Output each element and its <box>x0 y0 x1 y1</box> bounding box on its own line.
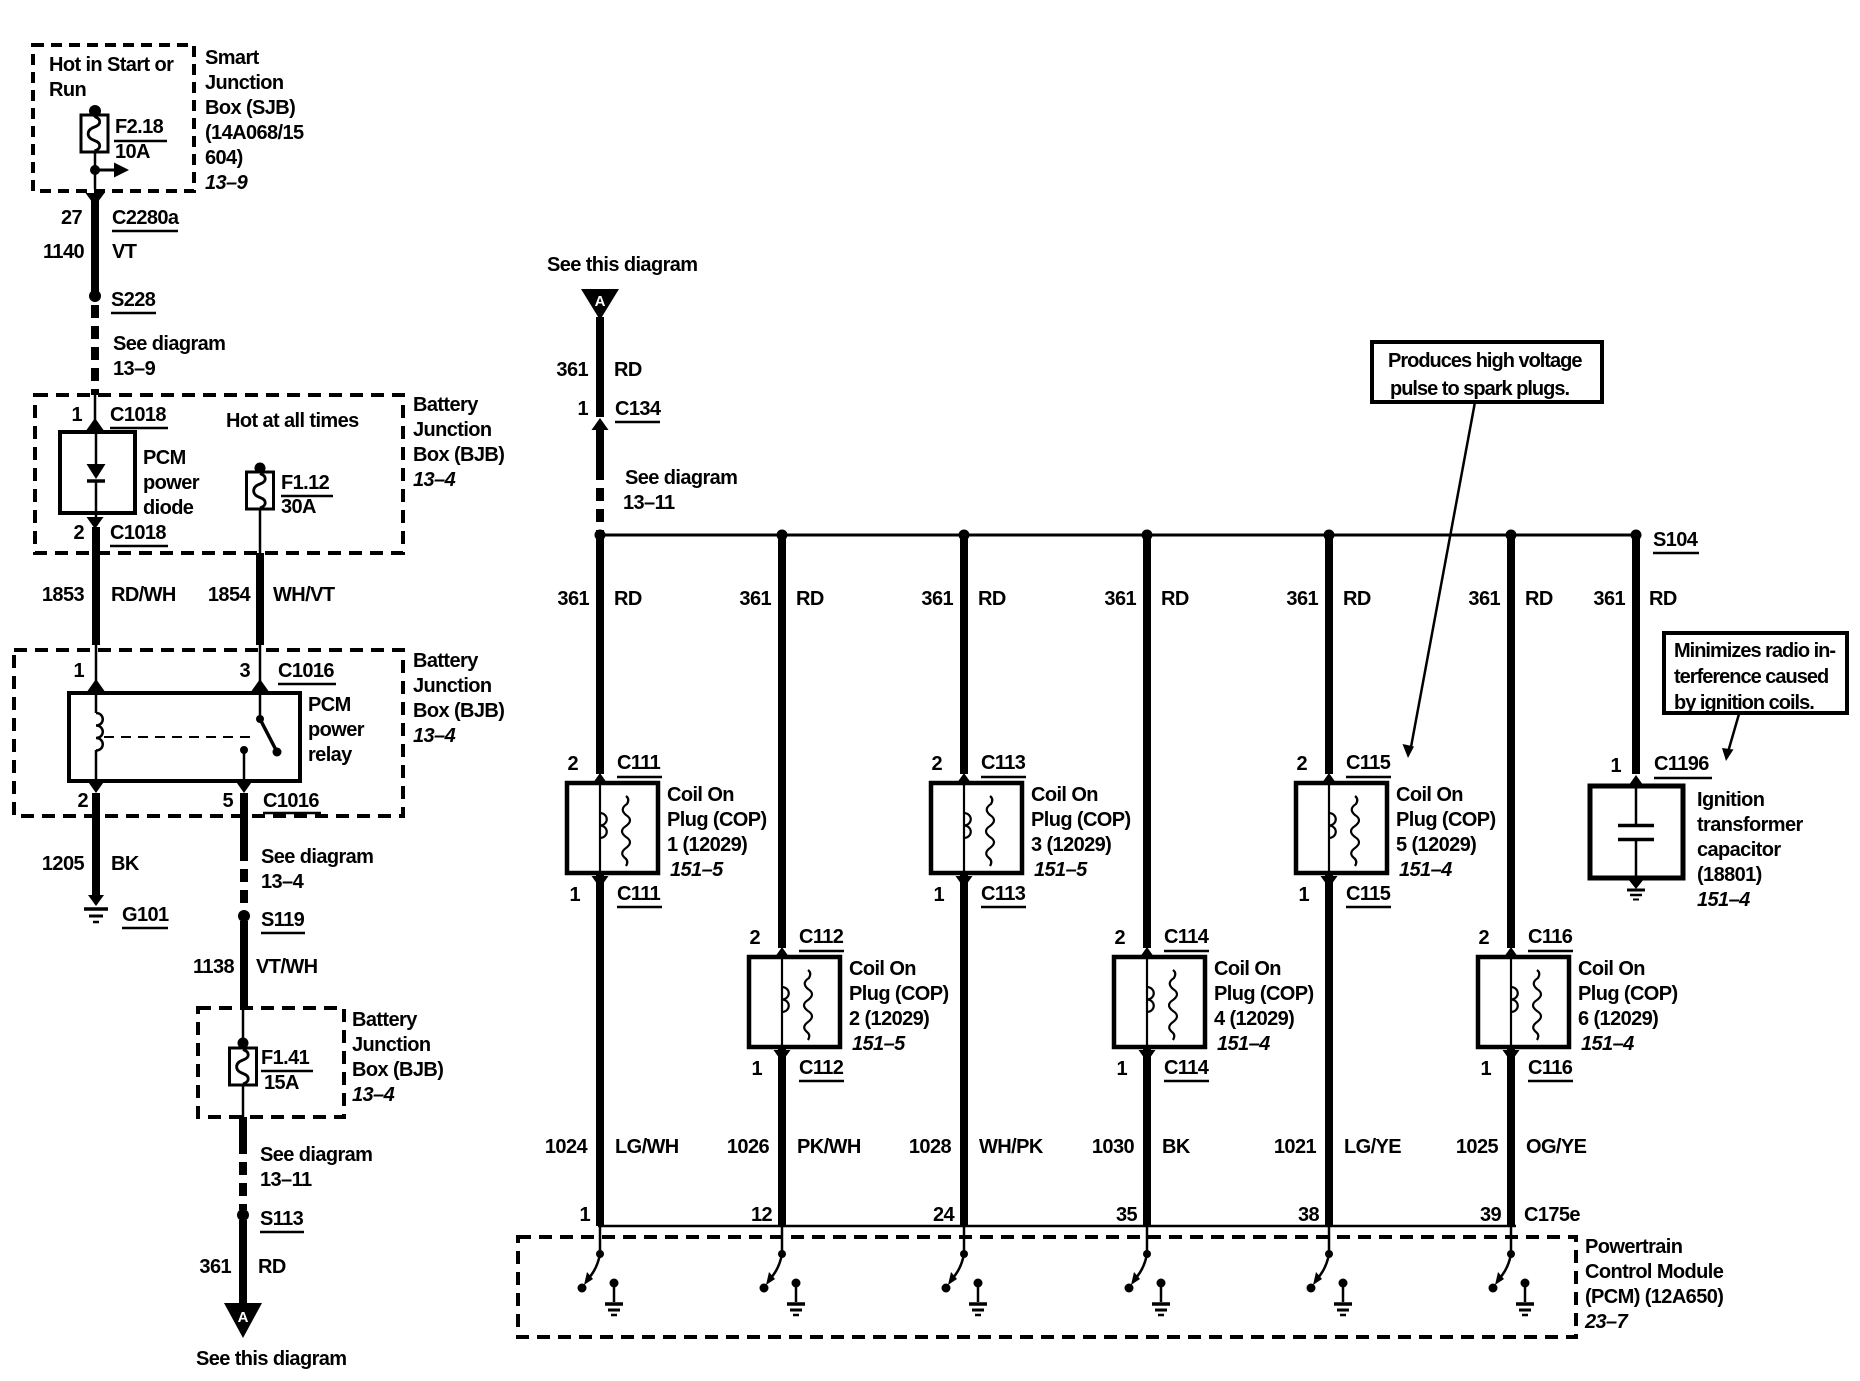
wire 1205 BK <box>92 793 100 898</box>
svg-text:C1016: C1016 <box>263 790 319 812</box>
svg-text:2 (12029): 2 (12029) <box>849 1008 929 1030</box>
svg-text:361: 361 <box>1593 588 1625 610</box>
svg-text:Box (BJB): Box (BJB) <box>413 700 504 722</box>
svg-text:Junction: Junction <box>205 72 284 94</box>
svg-text:C114: C114 <box>1164 926 1210 948</box>
Battery Junction Box (BJB) lower dashed enclosure <box>198 1008 344 1117</box>
svg-text:1026: 1026 <box>727 1136 770 1158</box>
svg-text:Coil On: Coil On <box>849 958 916 980</box>
Coil On Plug (COP) 5 (C115) <box>1296 783 1387 873</box>
splice S119 <box>238 910 250 922</box>
svg-text:Coil On: Coil On <box>1396 784 1463 806</box>
svg-text:C134: C134 <box>615 398 662 420</box>
wire 1853 RD/WH <box>92 527 100 645</box>
wire 1138 VT/WH <box>240 921 248 1008</box>
Powertrain Control Module dashed enclosure <box>518 1237 1576 1337</box>
svg-text:WH/PK: WH/PK <box>979 1136 1044 1158</box>
PCM power diode box <box>60 432 135 513</box>
svg-text:C111: C111 <box>617 883 661 905</box>
bus junction dot 5 <box>1324 530 1335 541</box>
svg-text:6 (12029): 6 (12029) <box>1578 1008 1658 1030</box>
bus junction dot 2 <box>777 530 788 541</box>
PCM driver switch and ground for pin 38 <box>1307 1226 1353 1315</box>
svg-text:3: 3 <box>239 660 250 682</box>
svg-text:LG/WH: LG/WH <box>615 1136 679 1158</box>
svg-text:C1018: C1018 <box>110 404 166 426</box>
Coil On Plug (COP) 6 (C116) <box>1478 957 1569 1047</box>
svg-text:2: 2 <box>1296 753 1307 775</box>
svg-text:151–4: 151–4 <box>1697 889 1750 911</box>
svg-text:27: 27 <box>61 207 83 229</box>
svg-text:(PCM) (12A650): (PCM) (12A650) <box>1585 1286 1723 1308</box>
relay coil <box>95 693 98 713</box>
svg-text:C116: C116 <box>1528 1057 1573 1079</box>
svg-text:361: 361 <box>1104 588 1136 610</box>
wire 1854 WH/VT <box>256 553 264 645</box>
svg-text:PK/WH: PK/WH <box>797 1136 861 1158</box>
pin 1 connector C112 <box>774 1050 791 1062</box>
svg-text:13–4: 13–4 <box>352 1084 395 1106</box>
wire 361 RD from arrow A <box>596 317 604 417</box>
svg-text:38: 38 <box>1298 1204 1320 1226</box>
svg-text:C115: C115 <box>1346 883 1391 905</box>
svg-text:361: 361 <box>1468 588 1500 610</box>
svg-text:Junction: Junction <box>352 1034 431 1056</box>
svg-text:Produces high voltage: Produces high voltage <box>1388 350 1582 372</box>
relay switch <box>259 693 262 716</box>
svg-text:pulse to spark plugs.: pulse to spark plugs. <box>1390 378 1569 400</box>
Battery Junction Box (BJB) relay dashed enclosure <box>14 650 403 816</box>
svg-text:power: power <box>308 719 365 741</box>
wire below fuse F1.41 <box>242 1085 245 1117</box>
wire 361 RD feed to coil 5 <box>1325 535 1333 774</box>
capacitor symbol <box>1635 786 1638 824</box>
svg-text:1: 1 <box>1116 1058 1127 1080</box>
wire 361 RD to off-page arrow <box>239 1220 247 1305</box>
svg-text:See this diagram: See this diagram <box>196 1348 346 1370</box>
svg-text:1853: 1853 <box>42 584 85 606</box>
svg-text:2: 2 <box>931 753 942 775</box>
splice S113 <box>237 1209 249 1221</box>
svg-text:Plug (COP): Plug (COP) <box>1396 809 1496 831</box>
Smart Junction Box (SJB) dashed enclosure <box>33 45 194 191</box>
svg-text:Smart: Smart <box>205 47 260 69</box>
svg-text:361: 361 <box>921 588 953 610</box>
svg-text:VT: VT <box>112 241 137 263</box>
svg-text:C111: C111 <box>617 752 661 774</box>
wire 361 RD feed to coil 1 <box>596 535 604 774</box>
svg-text:361: 361 <box>199 1256 231 1278</box>
svg-text:Battery: Battery <box>352 1009 418 1031</box>
svg-text:RD: RD <box>1525 588 1553 610</box>
svg-text:151–4: 151–4 <box>1581 1033 1634 1055</box>
svg-text:5 (12029): 5 (12029) <box>1396 834 1476 856</box>
svg-text:Box (SJB): Box (SJB) <box>205 97 295 119</box>
wire below C134 partly dashed <box>596 430 604 467</box>
svg-text:See diagram: See diagram <box>261 846 373 868</box>
svg-text:Box (BJB): Box (BJB) <box>352 1059 443 1081</box>
Coil On Plug (COP) 4 (C114) <box>1114 957 1205 1047</box>
svg-text:361: 361 <box>556 359 588 381</box>
fuse F2.18 10A <box>89 105 101 117</box>
svg-text:RD: RD <box>614 588 642 610</box>
off-page arrow A pointing down <box>224 1303 262 1338</box>
wire 361 RD feed to coil 6 <box>1507 535 1515 948</box>
Coil On Plug (COP) 1 (C111) <box>567 783 658 873</box>
wire 361 RD feed to coil 3 <box>960 535 968 774</box>
svg-text:(14A068/15: (14A068/15 <box>205 122 304 144</box>
wire 361 RD feed to coil 4 <box>1143 535 1151 948</box>
svg-text:C1196: C1196 <box>1654 753 1709 775</box>
svg-text:RD: RD <box>978 588 1006 610</box>
svg-text:A: A <box>238 1309 249 1326</box>
svg-text:1: 1 <box>933 884 944 906</box>
svg-text:RD: RD <box>796 588 824 610</box>
svg-text:Hot at all times: Hot at all times <box>226 410 359 432</box>
wire 361 RD feed to coil 2 <box>778 535 786 948</box>
svg-text:C112: C112 <box>799 1057 844 1079</box>
svg-text:S119: S119 <box>261 909 305 931</box>
Coil On Plug (COP) 2 (C112) <box>749 957 840 1047</box>
svg-text:RD: RD <box>614 359 642 381</box>
wire into PCM power diode <box>94 395 97 432</box>
callout Produces high voltage pulse to spark plugs <box>1372 342 1602 402</box>
svg-text:See this diagram: See this diagram <box>547 254 697 276</box>
svg-text:151–4: 151–4 <box>1399 859 1452 881</box>
svg-text:1028: 1028 <box>909 1136 952 1158</box>
svg-text:PCM: PCM <box>143 447 186 469</box>
callout arrow to capacitor <box>1728 714 1739 752</box>
svg-text:(18801): (18801) <box>1697 864 1762 886</box>
svg-text:3 (12029): 3 (12029) <box>1031 834 1111 856</box>
svg-text:by ignition coils.: by ignition coils. <box>1674 692 1814 714</box>
wire from coil 3 to PCM <box>960 873 968 1226</box>
svg-text:361: 361 <box>739 588 771 610</box>
svg-text:power: power <box>143 472 200 494</box>
svg-text:A: A <box>595 293 606 310</box>
svg-text:Junction: Junction <box>413 675 492 697</box>
svg-text:Coil On: Coil On <box>1031 784 1098 806</box>
svg-text:1: 1 <box>73 660 84 682</box>
svg-text:2: 2 <box>1114 927 1125 949</box>
Coil On Plug (COP) 3 (C113) <box>931 783 1022 873</box>
svg-text:C1018: C1018 <box>110 522 166 544</box>
svg-text:RD/WH: RD/WH <box>111 584 176 606</box>
svg-text:Powertrain: Powertrain <box>1585 1236 1682 1258</box>
svg-text:12: 12 <box>751 1204 773 1226</box>
svg-text:Coil On: Coil On <box>1578 958 1645 980</box>
wire 1140 VT <box>91 200 99 296</box>
svg-text:Plug (COP): Plug (COP) <box>1214 983 1314 1005</box>
svg-text:1024: 1024 <box>545 1136 589 1158</box>
svg-text:4 (12029): 4 (12029) <box>1214 1008 1294 1030</box>
svg-text:1025: 1025 <box>1456 1136 1499 1158</box>
svg-text:diode: diode <box>143 497 194 519</box>
svg-text:1: 1 <box>577 398 588 420</box>
svg-text:VT/WH: VT/WH <box>256 956 318 978</box>
svg-text:1: 1 <box>579 1204 590 1226</box>
callout Minimizes radio interference <box>1664 633 1847 713</box>
PCM driver switch and ground for pin 12 <box>760 1226 806 1315</box>
svg-text:10A: 10A <box>115 141 150 163</box>
svg-text:F2.18: F2.18 <box>115 116 164 138</box>
svg-text:2: 2 <box>567 753 578 775</box>
svg-text:151–4: 151–4 <box>1217 1033 1270 1055</box>
svg-text:RD: RD <box>1649 588 1677 610</box>
dashed wire below S228 <box>91 305 99 395</box>
svg-text:151–5: 151–5 <box>670 859 724 881</box>
svg-text:Plug (COP): Plug (COP) <box>667 809 767 831</box>
svg-text:1: 1 <box>1298 884 1309 906</box>
svg-text:1854: 1854 <box>208 584 252 606</box>
svg-text:5: 5 <box>222 790 233 812</box>
bus junction dot 6 <box>1506 530 1517 541</box>
svg-text:30A: 30A <box>281 496 316 518</box>
svg-text:C116: C116 <box>1528 926 1573 948</box>
svg-text:F1.12: F1.12 <box>281 472 330 494</box>
svg-text:1: 1 <box>751 1058 762 1080</box>
svg-text:C1016: C1016 <box>278 660 334 682</box>
svg-text:C112: C112 <box>799 926 844 948</box>
wire from coil 1 to PCM <box>596 873 604 1226</box>
wire from coil 5 to PCM <box>1325 873 1333 1226</box>
svg-text:C175e: C175e <box>1524 1204 1580 1226</box>
svg-text:See diagram: See diagram <box>625 467 737 489</box>
svg-text:OG/YE: OG/YE <box>1526 1136 1587 1158</box>
svg-text:35: 35 <box>1116 1204 1138 1226</box>
pins 2 and 5 connector C1016 <box>88 781 105 793</box>
svg-text:C113: C113 <box>981 883 1026 905</box>
wire into fuse F1.41 <box>242 1008 245 1043</box>
svg-text:Battery: Battery <box>413 394 479 416</box>
svg-text:C114: C114 <box>1164 1057 1210 1079</box>
pin 1 connector C114 <box>1139 1050 1156 1062</box>
PCM driver switch and ground for pin 24 <box>942 1226 988 1315</box>
fuse F1.41 15A <box>238 1038 249 1049</box>
svg-text:PCM: PCM <box>308 694 351 716</box>
svg-text:Ignition: Ignition <box>1697 789 1764 811</box>
pin 1 connector C115 <box>1321 876 1338 888</box>
svg-text:BK: BK <box>111 853 140 875</box>
svg-text:13–11: 13–11 <box>623 492 675 514</box>
connector arrow leaving SJB <box>86 193 105 206</box>
svg-text:Control Module: Control Module <box>1585 1261 1724 1283</box>
svg-text:capacitor: capacitor <box>1697 839 1781 861</box>
svg-text:Hot in Start or: Hot in Start or <box>49 54 174 76</box>
svg-text:2: 2 <box>749 927 760 949</box>
Battery Junction Box (BJB) upper dashed enclosure <box>35 395 403 553</box>
svg-text:BK: BK <box>1162 1136 1191 1158</box>
svg-text:See diagram: See diagram <box>260 1144 372 1166</box>
svg-text:151–5: 151–5 <box>852 1033 906 1055</box>
PCM driver switch and ground for pin 39 <box>1489 1226 1535 1315</box>
svg-text:RD: RD <box>258 1256 286 1278</box>
svg-text:13–4: 13–4 <box>413 469 456 491</box>
svg-text:1140: 1140 <box>43 241 84 263</box>
ignition transformer capacitor box <box>1590 786 1683 878</box>
wire to splice S113 <box>239 1117 247 1141</box>
svg-text:Junction: Junction <box>413 419 492 441</box>
svg-text:Plug (COP): Plug (COP) <box>1578 983 1678 1005</box>
svg-text:2: 2 <box>77 790 88 812</box>
junction dot with branch arrow <box>90 165 100 175</box>
svg-text:S113: S113 <box>260 1208 304 1230</box>
arrow into diode <box>87 418 104 430</box>
svg-text:C2280a: C2280a <box>112 207 180 229</box>
svg-text:13–9: 13–9 <box>205 172 249 194</box>
pin 1 connector C116 <box>1503 1050 1520 1062</box>
svg-text:24: 24 <box>933 1204 956 1226</box>
svg-text:Minimizes radio in-: Minimizes radio in- <box>1674 640 1835 662</box>
svg-text:RD: RD <box>1343 588 1371 610</box>
svg-text:1: 1 <box>569 884 580 906</box>
svg-text:LG/YE: LG/YE <box>1344 1136 1401 1158</box>
PCM power relay box <box>69 693 300 781</box>
wire from coil 4 to PCM <box>1143 1047 1151 1226</box>
splice S228 <box>89 290 101 302</box>
pin 1 connector C111 <box>592 876 609 888</box>
svg-text:1: 1 <box>1610 755 1621 777</box>
svg-text:transformer: transformer <box>1697 814 1803 836</box>
svg-text:C115: C115 <box>1346 752 1391 774</box>
svg-text:604): 604) <box>205 147 243 169</box>
svg-text:F1.41: F1.41 <box>261 1047 310 1069</box>
arrows into relay <box>88 679 105 691</box>
svg-text:S228: S228 <box>111 289 156 311</box>
svg-text:1030: 1030 <box>1092 1136 1135 1158</box>
wire below fuse F1.12 <box>259 509 262 553</box>
svg-text:Plug (COP): Plug (COP) <box>1031 809 1131 831</box>
svg-text:151–5: 151–5 <box>1034 859 1088 881</box>
svg-text:13–4: 13–4 <box>261 871 305 893</box>
wire from relay pin 5 <box>240 793 248 848</box>
svg-text:1205: 1205 <box>42 853 85 875</box>
callout arrow to coil 5 <box>1411 402 1475 747</box>
capacitor ground <box>1628 879 1644 889</box>
svg-text:C113: C113 <box>981 752 1026 774</box>
svg-text:1 (12029): 1 (12029) <box>667 834 747 856</box>
svg-text:13–11: 13–11 <box>260 1169 312 1191</box>
svg-text:Coil On: Coil On <box>667 784 734 806</box>
svg-text:23–7: 23–7 <box>1584 1311 1629 1333</box>
wire 361 RD feed to capacitor <box>1632 535 1640 774</box>
svg-text:RD: RD <box>1161 588 1189 610</box>
off-page arrow A entry <box>581 289 619 320</box>
svg-text:39: 39 <box>1480 1204 1502 1226</box>
svg-text:1138: 1138 <box>193 956 234 978</box>
bus junction dot 4 <box>1142 530 1153 541</box>
wire from coil 2 to PCM <box>778 1047 786 1226</box>
svg-text:Battery: Battery <box>413 650 479 672</box>
svg-text:S104: S104 <box>1653 529 1699 551</box>
svg-text:1021: 1021 <box>1274 1136 1317 1158</box>
PCM driver switch and ground for pin 1 <box>578 1226 624 1315</box>
wire from coil 6 to PCM <box>1507 1047 1515 1226</box>
svg-text:2: 2 <box>73 522 84 544</box>
svg-text:Plug (COP): Plug (COP) <box>849 983 949 1005</box>
svg-text:WH/VT: WH/VT <box>273 584 335 606</box>
svg-text:15A: 15A <box>264 1072 299 1094</box>
bus junction dot 3 <box>959 530 970 541</box>
svg-text:terference caused: terference caused <box>1674 666 1828 688</box>
svg-text:2: 2 <box>1478 927 1489 949</box>
connector line C175e <box>598 1225 1516 1228</box>
PCM driver switch and ground for pin 35 <box>1125 1226 1171 1315</box>
svg-text:relay: relay <box>308 744 353 766</box>
svg-text:G101: G101 <box>122 904 169 926</box>
svg-text:13–4: 13–4 <box>413 725 456 747</box>
ground G101 <box>88 895 104 906</box>
bus junction dot 1 <box>595 530 606 541</box>
svg-text:Box (BJB): Box (BJB) <box>413 444 504 466</box>
svg-text:1: 1 <box>1480 1058 1491 1080</box>
svg-text:361: 361 <box>1286 588 1318 610</box>
svg-text:See diagram: See diagram <box>113 333 225 355</box>
fuse F1.12 30A <box>255 463 266 474</box>
svg-text:Run: Run <box>49 79 86 101</box>
bus junction dot 7 <box>1631 530 1642 541</box>
svg-text:361: 361 <box>557 588 589 610</box>
svg-text:13–9: 13–9 <box>113 358 156 380</box>
svg-text:1: 1 <box>71 404 82 426</box>
bus wire splice S104 <box>600 534 1636 537</box>
svg-text:Coil On: Coil On <box>1214 958 1281 980</box>
wire fuse to junction <box>94 152 97 189</box>
pin 1 connector C113 <box>956 876 973 888</box>
relay actuation dashed link <box>104 736 256 738</box>
diode symbol <box>95 432 98 465</box>
